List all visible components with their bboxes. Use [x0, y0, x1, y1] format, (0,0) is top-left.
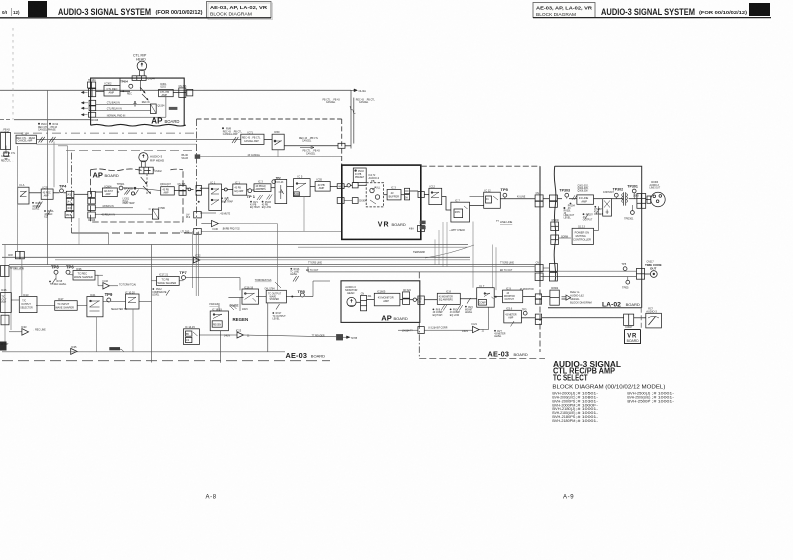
wire vertical x54 [53, 142, 55, 188]
switch IC50 [274, 130, 280, 134]
capacitor left [5, 146, 7, 152]
wire time code lines [540, 270, 636, 272]
wire to IC5 [271, 187, 275, 189]
connector LA-02 left edge [549, 195, 557, 201]
amp IC3 buffer [391, 186, 396, 190]
node dark connector left edge [0, 342, 7, 351]
wire bus drop x496 [495, 247, 497, 290]
node junction dot [495, 296, 497, 298]
title block diagram line [552, 385, 665, 391]
label AE-03 BOARD left [286, 351, 326, 360]
wire bus y257.3 [2, 256, 470, 258]
scissors marks line amp [572, 195, 577, 200]
test point TP304 [120, 80, 128, 84]
connector CN345 AP2 [178, 184, 187, 186]
label REC 43 cancel [356, 100, 376, 105]
node boxes ON9A [405, 188, 410, 193]
arrow refer [562, 295, 571, 300]
pots RV9 RV2 [441, 305, 447, 311]
node box 44 [337, 184, 344, 189]
node OL/3A junction [350, 90, 352, 148]
node CTL head label [133, 54, 147, 62]
op-amp IC23 [236, 328, 242, 332]
connector outside board [187, 89, 193, 96]
connector time code out [636, 269, 644, 280]
wire AE-03 right top dashed [421, 165, 540, 167]
wire regen chain [228, 297, 243, 299]
label TORN FEST [255, 280, 272, 282]
pot RV22 [36, 202, 42, 209]
label LA-02 BOARD [602, 302, 640, 309]
pot RV1 trap [224, 197, 228, 203]
node junction box 43A [338, 143, 345, 148]
label LG CORR [428, 328, 448, 330]
label REGEN bold [233, 317, 249, 322]
wire dash rail y150.3 [66, 149, 197, 151]
amp IC71 cancel [248, 130, 254, 134]
header left box [207, 2, 272, 19]
wire bus y247.2 [298, 246, 468, 248]
label small left texts [1, 153, 16, 163]
wire TC rec [55, 274, 57, 280]
shaper IC17 TC INPUT [58, 297, 64, 301]
test points TP601 TPX08 [117, 182, 133, 190]
title block AUDIO-3 SIGNAL [553, 360, 621, 383]
wire boundary dash-dot x196.5 [196, 119, 198, 231]
wire bias [95, 207, 133, 209]
header left rule [0, 17, 271, 19]
label 43 BIAS IN [101, 205, 115, 217]
label RV10 RV12 phase [38, 123, 59, 132]
switch IC12 #2 [485, 188, 492, 192]
board LA-02 outline [548, 166, 642, 308]
label FWD ES [209, 304, 218, 306]
pot RV3 [467, 298, 471, 304]
pot RV16 tc line level [290, 268, 300, 276]
pot RV1B EQ LOW [267, 195, 273, 200]
header left corner marks [11, 8, 13, 16]
wire rail y144.2 [36, 143, 196, 145]
test point TP7 [179, 270, 187, 275]
wire meter line [521, 317, 535, 319]
connector CN344 [132, 76, 146, 81]
amp IC55 43 PB AMP [317, 178, 323, 182]
op-amp IC22 [195, 253, 201, 257]
amp IC604 adjust [105, 184, 112, 188]
label PB/EE [230, 303, 249, 310]
board VR #2 [625, 330, 641, 344]
wire dashed under AE03 label [2, 360, 330, 362]
connector XLR line out [650, 182, 661, 189]
header right black block [749, 3, 770, 16]
board VR #1 outline [342, 165, 421, 239]
header right box [533, 3, 595, 18]
label PB CTL to PB43 [303, 151, 321, 156]
pot scissors mark [39, 137, 56, 143]
amp IC302 CTL REC AMP [105, 82, 112, 86]
shaper TC OUTPUT [265, 289, 276, 291]
switch IC7 mid [455, 199, 460, 203]
op-amp IC21 right [472, 322, 478, 326]
header left black block [28, 1, 47, 17]
switch IC14,15 [185, 325, 195, 329]
wire dashed AE03 right bottom [419, 358, 545, 360]
wire curve term [425, 245, 474, 258]
connector CN345 top [179, 88, 186, 98]
shaper IC17,21 TC PB [159, 273, 169, 277]
switch IC10,20 [125, 290, 135, 294]
switch IC16,19 [244, 285, 254, 289]
amp IC5,6 meter amp [506, 307, 513, 311]
wire bus y244.5 [2, 244, 468, 246]
page number A-9 [563, 495, 574, 501]
switch IC7 right [480, 284, 485, 288]
label PB CTL cancel [323, 100, 341, 105]
wire bus 266.6 [9, 266, 535, 268]
wire bus ED TC 271.9 [308, 271, 535, 273]
model list right column [627, 392, 674, 404]
pot + node [413, 298, 416, 301]
switch IC21 tall [90, 293, 96, 297]
wire IC71-IC50 [264, 139, 272, 141]
connector CN304 monitor [361, 296, 367, 311]
pot TC REC LEVEL [52, 279, 56, 285]
board AP #3 outline [341, 281, 420, 323]
wire cancel to VR [200, 156, 342, 158]
wire vertical feed left [12, 28, 14, 120]
label TC/TCRW [119, 285, 136, 287]
monitor head label [345, 285, 357, 295]
connector stack AP2 left edge [88, 192, 96, 198]
wire corr line [398, 329, 418, 331]
model list left column [552, 392, 598, 423]
pot RV8 [232, 137, 238, 143]
node CN8 boxes [16, 251, 20, 258]
switch S301 marks [140, 80, 148, 100]
op-amp IC33 [21, 325, 27, 329]
test point TP5 mid [501, 187, 509, 192]
connector CN grid [637, 194, 646, 209]
label LY201 trap [123, 198, 135, 205]
amp IC8 monitor EQ [446, 290, 451, 294]
wire vertical x=47.5 [47, 90, 49, 264]
meter AUDIO-3 [646, 309, 657, 314]
pot RV302 [585, 214, 589, 220]
test point TP4 [59, 184, 67, 189]
wires AP2 chain [29, 192, 41, 194]
amp Q601-607 PB AMP [160, 184, 171, 186]
wire dash LA02 to VR2 [640, 308, 642, 329]
label RV8 ref cancel [222, 127, 243, 136]
test point TP2 + pot box [276, 176, 281, 180]
amp IC3 PB EQ [258, 179, 263, 183]
connector CN324 [403, 292, 410, 298]
pot RV301 [563, 207, 574, 220]
label CTL BIAS IN [107, 101, 126, 117]
pot RV43 preset [353, 168, 366, 183]
label AE-03 BOARD right [488, 349, 528, 358]
pot RV7 meter level [494, 330, 506, 338]
label TT ERS LINE right [500, 263, 514, 272]
IC4 audio-3 PB (dashed) [369, 175, 380, 183]
pot RV1 EQ HIGH [257, 195, 263, 200]
wire vertical x67.4 [58, 146, 67, 183]
op-amp IC35 [71, 345, 77, 349]
op-amp IC30 [212, 220, 219, 226]
label VR BOARD [378, 222, 406, 229]
page number A-8 [206, 495, 217, 501]
connector boxes AP1 left edge [88, 82, 96, 88]
node B6-4D link box [182, 155, 189, 160]
relay K301 [151, 104, 157, 114]
wire 43 LINE [500, 198, 535, 200]
wire gray verticals to bus [434, 239, 436, 264]
wire dashdot boundary x419.3 [418, 272, 420, 359]
wire to CN602 [523, 296, 536, 298]
audio-3 R/P head [139, 153, 148, 162]
wire board edge dash-dot [71, 153, 73, 233]
node boxes to LA-02 [535, 195, 543, 201]
label AP BOARD #3 [381, 313, 408, 322]
wires monitor chain [460, 298, 476, 300]
switch IC5 [294, 179, 311, 197]
wire CTL signals [96, 90, 104, 92]
wire IC50 right [284, 145, 338, 147]
node LA/PL9 box [194, 212, 202, 218]
test point TP3 [522, 307, 527, 311]
node LTL200 box [181, 229, 190, 233]
label TT ERS LINE mid [306, 263, 322, 272]
connector CN342 [142, 162, 146, 167]
board AP #2 outline [90, 169, 183, 222]
test point TP302 [613, 187, 624, 191]
pot mark [135, 190, 139, 196]
selector IC13 [23, 293, 29, 297]
switch IC12 [430, 185, 436, 189]
connector CN607 [624, 314, 634, 325]
label 43 OUT [1, 344, 10, 346]
CTL R/P head [137, 61, 147, 71]
op-amp IC32 [103, 279, 109, 283]
label AP BOARD #1 [151, 117, 179, 126]
node left edge boxes [1, 266, 10, 277]
node boxes board edge [196, 186, 202, 191]
wire AE-03 right edge x540 [539, 166, 541, 281]
transformer T301 [624, 192, 626, 205]
label 43 MUTE [218, 214, 231, 216]
label SELECTED TC [111, 309, 127, 311]
label TT READER [312, 334, 325, 337]
label AP BOARD #2 [93, 171, 119, 180]
amp IC9 monitor output [506, 286, 511, 290]
amp IC16 left cancel [1, 133, 11, 150]
monitor head [347, 297, 356, 306]
node boxes IC/OR [337, 198, 344, 204]
amp IC1605 monitor [377, 290, 386, 294]
switch IC1 [211, 180, 216, 184]
test points TP8 TP6 [51, 264, 74, 269]
label WHT CHECK [449, 230, 466, 232]
board AP #1 outline [91, 78, 186, 126]
wire dashed corner [197, 118, 342, 120]
wire second vertical [353, 98, 355, 144]
amp 43 PB EQ [235, 180, 240, 184]
test point TP301 [627, 185, 638, 189]
test point TP5 tc [621, 262, 626, 266]
pot RV12 comparate [166, 290, 170, 296]
wire cancel line [36, 139, 240, 141]
wires monitor [356, 301, 360, 303]
wire left verticals [4, 245, 6, 349]
wire dashed AE03 bottom left [2, 351, 285, 353]
switch IC18,19 regen [212, 308, 222, 312]
wire dash rail y133 [14, 132, 197, 134]
test point TP303 [559, 188, 570, 192]
wire drop x79 [78, 218, 80, 245]
test point TPE301 [631, 211, 635, 215]
node dark boxes VR edge [420, 221, 426, 225]
wire bus y259.8 [55, 259, 470, 261]
connector CN602 [551, 288, 559, 290]
wire vertical x151.5 [151, 245, 153, 363]
wire verticals TC mid [192, 231, 194, 288]
node box VR bottom right [418, 226, 425, 232]
node box on dashdot [418, 327, 424, 334]
wires TC input chain [36, 305, 55, 307]
pot RV2A [47, 210, 51, 217]
label 43 MONITOR [520, 289, 534, 291]
wire switch dashed inside [147, 174, 154, 209]
shaper IC36 TC REC [76, 267, 82, 271]
header right rule [533, 17, 771, 19]
resistor network [152, 209, 158, 219]
connector stack left of board [66, 191, 74, 197]
test point TP5 left [298, 289, 306, 294]
wire bus TT ERS 264.6 [9, 264, 535, 266]
wire bias lines [96, 104, 151, 106]
capacitor C303 [603, 192, 615, 194]
connector left tc boxes [535, 265, 543, 272]
controller Q1,2,3 muting [578, 227, 586, 229]
amp Q301 line amp [578, 185, 589, 192]
node box VR right edge [418, 192, 424, 198]
test point TPE5 [626, 280, 630, 284]
wires VR chain [310, 186, 315, 188]
wire rail y119.5 [0, 119, 12, 121]
label refer to [570, 290, 592, 304]
wires IC12-IC7-IC12 [442, 197, 451, 211]
wire head to board [120, 77, 132, 79]
wire IC1 to PB EQ [222, 189, 225, 191]
wires line amp chain [557, 198, 562, 200]
amp IC70 REC AMP [43, 185, 49, 189]
pot RV17 [276, 304, 280, 310]
label TT LINE LINE [496, 220, 513, 224]
test point TP9 [105, 292, 113, 297]
connector left edge mid [551, 222, 559, 231]
node box small [352, 183, 358, 188]
label REC43 to PB CTL [299, 138, 319, 143]
node junction T1788 [336, 334, 343, 340]
test point TP1 [248, 189, 252, 193]
switch IC2A [20, 183, 25, 187]
amp IC301 CTL PB AMP [160, 84, 167, 89]
label TT ERS LINE left [10, 268, 25, 270]
wire TC PB [152, 280, 157, 282]
wire REC CTL bus (long horizontal) [0, 89, 351, 91]
